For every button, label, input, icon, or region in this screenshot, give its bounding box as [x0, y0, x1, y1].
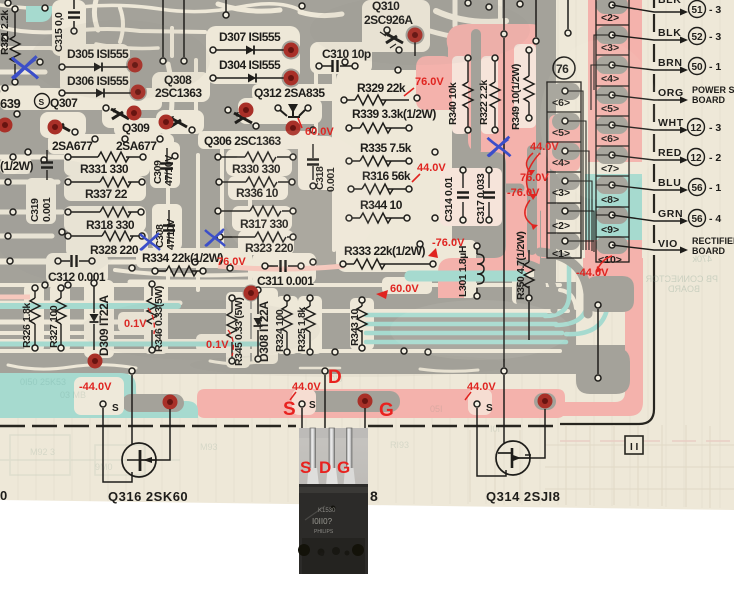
svg-text:R318 330: R318 330	[86, 218, 135, 232]
svg-text:G: G	[379, 400, 394, 421]
svg-text:2SA677: 2SA677	[116, 139, 157, 153]
blue pen mark 1	[12, 56, 38, 78]
svg-text:BLK: BLK	[658, 0, 681, 6]
svg-text:44.0V: 44.0V	[467, 381, 496, 393]
svg-text:R335 7.5k: R335 7.5k	[360, 141, 412, 155]
stripes zone vertical component pockets	[24, 284, 44, 352]
svg-text:<9>: <9>	[601, 224, 619, 236]
svg-text:I I: I I	[630, 442, 639, 453]
resistor R331	[71, 156, 143, 158]
svg-text:<2>: <2>	[601, 12, 619, 24]
svg-text:C314 0.01: C314 0.01	[443, 177, 455, 222]
svg-text:D: D	[319, 458, 331, 477]
svg-text:Q310: Q310	[372, 0, 400, 13]
svg-text:12: 12	[690, 123, 702, 134]
right pin column box	[596, 0, 629, 262]
svg-text:03 MB: 03 MB	[60, 390, 86, 400]
left pin column box	[547, 82, 581, 258]
svg-text:VIO: VIO	[658, 238, 678, 250]
svg-text:RI93: RI93	[390, 440, 409, 450]
test point dot D306 cathode	[131, 85, 146, 100]
svg-text:60.0V: 60.0V	[390, 283, 419, 295]
svg-text:R346 0.33(5W): R346 0.33(5W)	[153, 286, 165, 352]
svg-text:S: S	[309, 400, 316, 411]
svg-text:<1>: <1>	[552, 248, 570, 260]
svg-text:Q306 2SC1363: Q306 2SC1363	[204, 134, 282, 148]
svg-text:0.1V: 0.1V	[206, 339, 229, 351]
svg-text:D306 ISI555: D306 ISI555	[67, 74, 129, 88]
svg-text:S: S	[300, 458, 311, 477]
test point dot D309 anode	[88, 354, 103, 369]
svg-text:<2>: <2>	[552, 220, 570, 232]
S pads near photo	[299, 401, 305, 407]
blue pen mark 4	[488, 137, 511, 157]
wire label rows	[612, 5, 680, 250]
svg-text:R321 2.2k: R321 2.2k	[0, 10, 11, 55]
svg-text:-44.0V: -44.0V	[576, 267, 609, 279]
svg-text:R336 10: R336 10	[236, 186, 279, 200]
svg-text:0: 0	[0, 488, 7, 503]
svg-text:S: S	[283, 399, 296, 420]
svg-text:R349 10(1/2W): R349 10(1/2W)	[510, 64, 522, 130]
svg-text:Q314 2SJI8: Q314 2SJI8	[486, 489, 560, 504]
svg-text:- 3: - 3	[709, 122, 721, 134]
svg-text:POWER S: POWER S	[692, 85, 734, 95]
blue pen mark 2	[140, 233, 160, 250]
svg-text:639: 639	[0, 96, 20, 111]
capacitor C312	[61, 260, 89, 262]
transistor Q314 2SJ18 symbol and wires	[477, 375, 545, 476]
svg-text:44.0V: 44.0V	[530, 141, 559, 153]
gray lobes on bottom bands	[122, 394, 184, 412]
svg-text:D: D	[328, 367, 342, 388]
capacitor C311	[268, 265, 298, 267]
svg-text:S: S	[39, 97, 45, 107]
svg-text:<5>: <5>	[601, 103, 619, 115]
svg-text:<8>: <8>	[601, 194, 619, 206]
svg-text:44.0V: 44.0V	[292, 381, 321, 393]
svg-text:<4>: <4>	[601, 73, 619, 85]
svg-text:-76.0V: -76.0V	[432, 237, 465, 249]
svg-text:BOARD: BOARD	[667, 284, 700, 294]
svg-text:GRN: GRN	[658, 208, 683, 220]
svg-text:R326 1.8k: R326 1.8k	[21, 303, 33, 348]
svg-text:L301 1.8µH: L301 1.8µH	[457, 246, 469, 297]
pink top connection to -44.0V zone	[583, 258, 643, 272]
blue pen mark 3	[205, 229, 225, 246]
pink tongue around 76.0V	[416, 56, 452, 110]
test point dot Q314 drain	[538, 394, 553, 409]
svg-text:<7>: <7>	[601, 163, 619, 175]
svg-text:76.0V: 76.0V	[217, 256, 246, 268]
gray lobes for right pin column	[596, 0, 628, 254]
svg-text:C310 10p: C310 10p	[322, 47, 371, 61]
svg-text:R333 22k(1/2W): R333 22k(1/2W)	[344, 244, 426, 258]
test point dot D304 cathode	[284, 71, 299, 86]
pink band bottom horizontal	[197, 389, 565, 418]
svg-text:D304 ISI555: D304 ISI555	[219, 58, 281, 72]
svg-text:9M0: 9M0	[95, 462, 113, 472]
svg-text:S: S	[112, 403, 119, 414]
pink bands behind right pin column	[588, 0, 642, 162]
transistor package photo (TO-3P)	[298, 428, 368, 574]
svg-text:<6>: <6>	[601, 133, 619, 145]
svg-text:C319: C319	[29, 198, 41, 222]
gray lobes lower right zone	[586, 276, 634, 312]
svg-text:M92 3: M92 3	[30, 447, 55, 457]
svg-text:RED: RED	[658, 147, 682, 159]
svg-text:D308 IT22A: D308 IT22A	[257, 301, 271, 362]
svg-text:R344 10: R344 10	[360, 198, 403, 212]
svg-text:R323 220: R323 220	[245, 241, 294, 255]
svg-text:R330 330: R330 330	[232, 162, 281, 176]
svg-text:50: 50	[691, 62, 703, 73]
svg-text:0.001: 0.001	[41, 197, 53, 222]
svg-text:BRN: BRN	[658, 57, 683, 69]
svg-text:BLK: BLK	[658, 27, 681, 39]
pink lower part of snake down to L301 zone	[438, 198, 540, 298]
svg-text:G: G	[337, 458, 350, 477]
svg-text:- 4: - 4	[709, 213, 721, 225]
pink ring right side	[540, 268, 643, 416]
svg-text:0.001: 0.001	[325, 167, 337, 192]
pink thin strip left of left pin column	[541, 150, 550, 258]
svg-text:-76.0V: -76.0V	[507, 187, 540, 199]
svg-text:<3>: <3>	[552, 187, 570, 199]
svg-text:470k: 470k	[692, 254, 712, 264]
svg-text:R322 2.2k: R322 2.2k	[478, 80, 490, 125]
svg-text:RECTIFIER: RECTIFIER	[692, 236, 734, 246]
svg-text:- 3: - 3	[709, 4, 721, 16]
scan mottling	[0, 0, 660, 377]
pink wisp near R334 row	[218, 266, 344, 269]
svg-text:Q307: Q307	[50, 96, 78, 110]
svg-text:R334 22k(1/2W): R334 22k(1/2W)	[142, 251, 224, 265]
svg-text:60.0V: 60.0V	[305, 126, 334, 138]
svg-text:- 1: - 1	[709, 182, 721, 194]
resistor R317	[221, 210, 291, 212]
svg-text:44.0V: 44.0V	[417, 162, 446, 174]
svg-text:BLU: BLU	[658, 177, 681, 189]
svg-text:PB CONNECTOR: PB CONNECTOR	[645, 274, 718, 284]
svg-text:R328 220: R328 220	[90, 243, 139, 257]
test point dot node G (photo)	[358, 394, 373, 409]
svg-text:05I: 05I	[430, 404, 443, 414]
svg-text:12: 12	[690, 153, 702, 164]
teal ribbons in stripes zone	[0, 256, 609, 344]
stripes zone channels	[0, 283, 560, 287]
svg-text:BOARD: BOARD	[692, 95, 725, 105]
resistor R328	[71, 235, 142, 237]
svg-text:I0II0?: I0II0?	[312, 517, 333, 526]
svg-text:D309 IT22A: D309 IT22A	[97, 295, 111, 356]
circled destinations	[688, 1, 706, 227]
test point dot D308 anode	[244, 286, 259, 301]
circled 76	[553, 57, 575, 79]
svg-text:2SC1363: 2SC1363	[155, 86, 202, 100]
teal band behind right pin column	[585, 174, 642, 240]
svg-text:K1530: K1530	[318, 508, 336, 514]
svg-text:47/10V: 47/10V	[165, 219, 177, 250]
ghost bleed-through faint	[0, 435, 180, 475]
svg-text:D305 ISI555: D305 ISI555	[67, 47, 129, 61]
svg-text:<3>: <3>	[601, 42, 619, 54]
svg-text:47/10V: 47/10V	[163, 155, 175, 186]
pink snake band around R340/R322/R349	[447, 24, 546, 212]
body	[299, 484, 368, 574]
svg-text:51: 51	[691, 5, 703, 16]
capacitor C315	[73, 0, 75, 28]
border vertical line	[560, 0, 654, 424]
svg-text:R317 330: R317 330	[240, 217, 289, 231]
gray curved ribbons right-mid	[540, 252, 588, 314]
test point dot Q316 drain	[163, 395, 178, 410]
page marker box 11	[625, 436, 643, 454]
resistor R337	[71, 181, 142, 183]
svg-text:<4>: <4>	[552, 157, 570, 169]
svg-text:R331 330: R331 330	[80, 162, 129, 176]
faint grid bottom right	[470, 425, 734, 508]
long vertical wires top	[163, 0, 568, 367]
svg-text:<10>: <10>	[598, 254, 622, 266]
test point dots transistor row	[0, 118, 13, 133]
bottom border dashed line	[0, 425, 296, 428]
svg-text:52: 52	[691, 32, 703, 43]
svg-text:WHT: WHT	[658, 117, 684, 129]
svg-text:Q309: Q309	[122, 121, 150, 135]
svg-text:8: 8	[370, 488, 378, 504]
svg-text:R337 22: R337 22	[85, 187, 128, 201]
svg-text:S: S	[486, 403, 493, 414]
resistor R318	[71, 211, 141, 213]
svg-text:(1/2W): (1/2W)	[0, 159, 34, 173]
svg-text:- 2: - 2	[709, 152, 721, 164]
svg-text:56: 56	[691, 183, 703, 194]
svg-text:- 1: - 1	[709, 61, 721, 73]
teal blob bottom-left	[0, 373, 198, 418]
svg-text:R340 10k: R340 10k	[447, 82, 459, 125]
leads	[307, 428, 356, 486]
svg-text:Q308: Q308	[164, 73, 192, 87]
gray lobes inside pockets (pads on copper)	[126, 26, 425, 302]
pads right column	[609, 2, 615, 8]
svg-text:0I50 25K53: 0I50 25K53	[20, 377, 66, 387]
svg-text:Q312 2SA835: Q312 2SA835	[254, 86, 325, 100]
svg-text:R339 3.3k(1/2W): R339 3.3k(1/2W)	[352, 107, 436, 121]
svg-text:M93: M93	[200, 442, 218, 452]
svg-text:C311 0.001: C311 0.001	[257, 274, 314, 288]
gray ribbons re-drawn inside pink snake	[446, 0, 541, 250]
svg-text:C315 0,0: C315 0,0	[53, 12, 65, 52]
test point dot D307 cathode	[284, 43, 299, 58]
transistor Q316 2SK60 symbol and wires	[103, 375, 170, 482]
svg-text:76: 76	[556, 62, 569, 76]
pads left column	[562, 88, 568, 94]
svg-text:56: 56	[691, 214, 703, 225]
svg-text:Q316 2SK60: Q316 2SK60	[108, 489, 188, 504]
resistor R336	[222, 181, 290, 183]
svg-text:76.0V: 76.0V	[520, 172, 549, 184]
svg-text:2SC926A: 2SC926A	[364, 13, 413, 27]
test point dot Q310 emitter	[408, 28, 423, 43]
connecting wires between columns	[567, 35, 612, 252]
svg-text:<5>: <5>	[552, 127, 570, 139]
resistor R323	[223, 236, 291, 238]
svg-text:- 3: - 3	[709, 31, 721, 43]
svg-text:ORG: ORG	[658, 87, 684, 99]
svg-text:PHILIPS: PHILIPS	[314, 529, 334, 535]
svg-text:R329 22k: R329 22k	[357, 81, 406, 95]
resistor R330	[221, 156, 290, 158]
svg-text:D307 ISI555: D307 ISI555	[219, 30, 281, 44]
svg-text:76.0V: 76.0V	[415, 76, 444, 88]
svg-text:R316 56k: R316 56k	[362, 169, 411, 183]
svg-text:<6>: <6>	[552, 97, 570, 109]
gray lobes for left pin column	[552, 83, 580, 250]
cream strips for R340 R322 R349 inside pink	[440, 44, 536, 226]
transistor pair 2SA677	[111, 108, 129, 119]
test point dot D305 cathode	[128, 58, 143, 73]
svg-text:0.1V: 0.1V	[124, 318, 147, 330]
svg-text:2SA677: 2SA677	[52, 139, 93, 153]
teal patch top-left	[26, 6, 52, 22]
